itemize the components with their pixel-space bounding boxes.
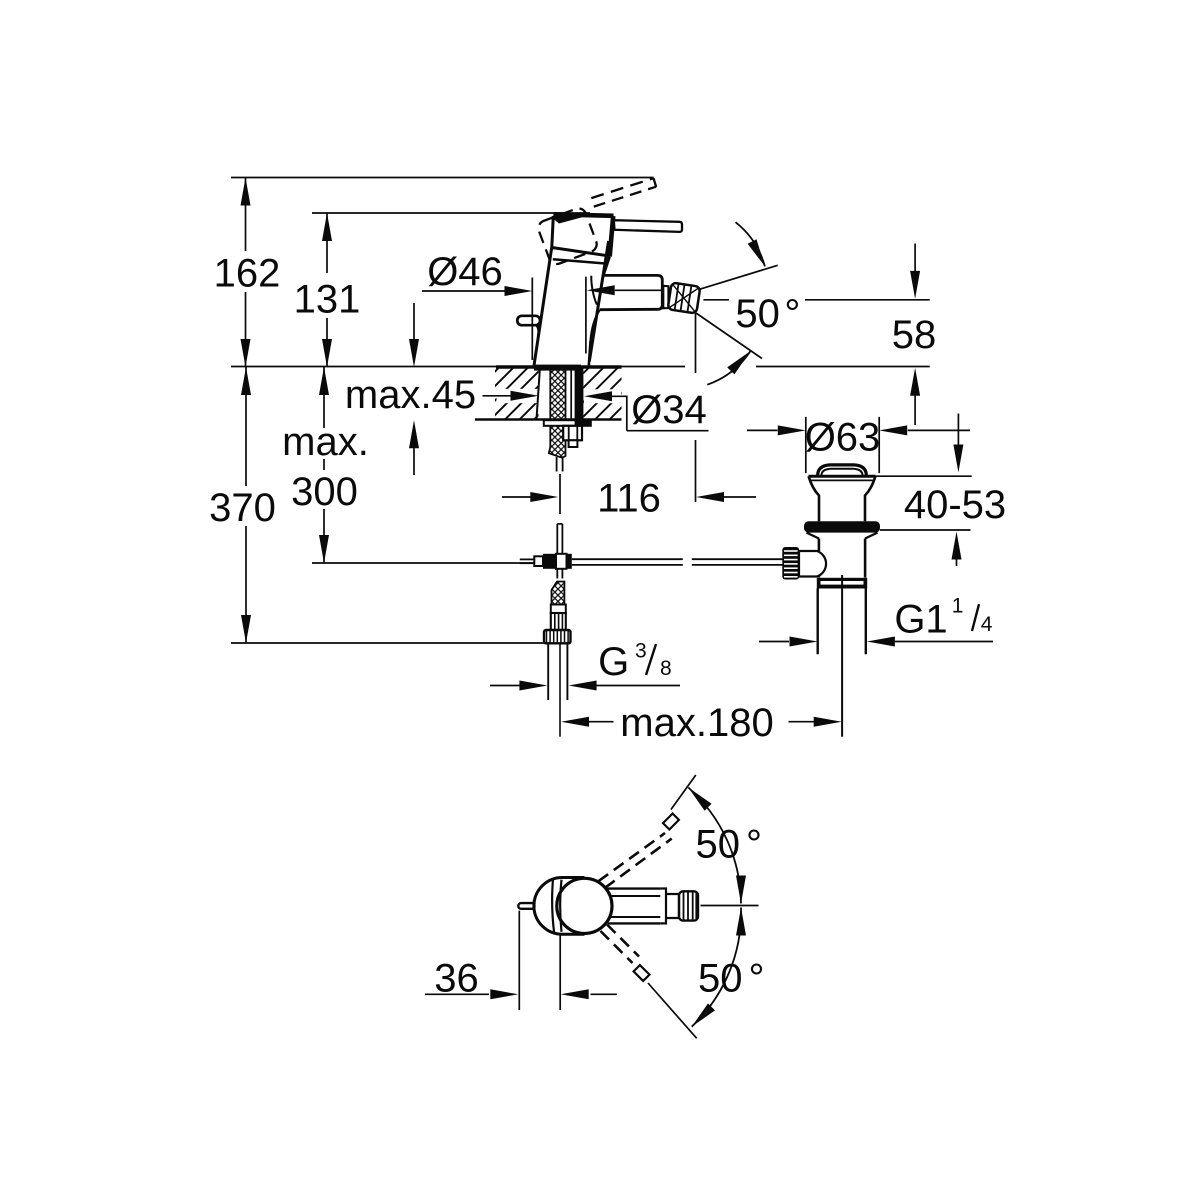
svg-text:131: 131 bbox=[294, 278, 361, 322]
svg-text:36: 36 bbox=[434, 957, 479, 1001]
svg-text:300: 300 bbox=[291, 470, 358, 514]
svg-text:Ø34: Ø34 bbox=[631, 388, 707, 432]
svg-text:Ø46: Ø46 bbox=[427, 250, 503, 294]
svg-text:50°: 50° bbox=[735, 292, 800, 336]
svg-text:50°: 50° bbox=[698, 957, 765, 1001]
svg-text:max.180: max.180 bbox=[620, 701, 773, 745]
svg-text:G: G bbox=[598, 640, 629, 684]
svg-text:3: 3 bbox=[635, 640, 647, 663]
svg-text:370: 370 bbox=[209, 486, 276, 530]
svg-text:116: 116 bbox=[597, 476, 661, 520]
svg-text:162: 162 bbox=[214, 252, 281, 296]
svg-text:G1: G1 bbox=[894, 598, 947, 642]
svg-text:Ø63: Ø63 bbox=[805, 416, 881, 460]
svg-text:50°: 50° bbox=[696, 823, 763, 867]
svg-text:max.: max. bbox=[282, 420, 369, 464]
svg-text:58: 58 bbox=[892, 313, 937, 357]
svg-text:1: 1 bbox=[952, 595, 964, 618]
svg-text:4: 4 bbox=[981, 613, 993, 636]
svg-text:8: 8 bbox=[660, 657, 672, 680]
svg-text:40-53: 40-53 bbox=[904, 483, 1006, 527]
svg-text:max.45: max.45 bbox=[345, 373, 476, 417]
